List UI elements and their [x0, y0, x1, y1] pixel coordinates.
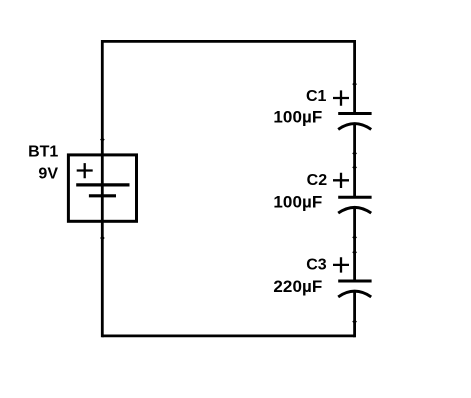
wire joint on left wire below BT1	[100, 236, 105, 241]
battery BT1 polarity plus sign	[77, 163, 93, 178]
svg-text:100µF: 100µF	[273, 193, 322, 212]
label C2 value 100µF	[273, 193, 322, 212]
wire top (node between BT1 + and C1 +)	[102, 40, 354, 43]
capacitor C2 polarity plus sign	[333, 173, 349, 188]
wire joint on right wire above C1	[352, 82, 357, 87]
wire left (BT1 branch)	[101, 40, 104, 337]
wire right segment: C2 to C3	[353, 208, 356, 281]
label C2 reference designator	[307, 172, 328, 189]
wire joint on left wire above BT1	[100, 137, 105, 142]
svg-text:C2: C2	[307, 172, 328, 189]
wire bottom (return node)	[102, 334, 354, 337]
svg-text:C3: C3	[306, 257, 327, 274]
capacitor C2 top plate	[338, 196, 371, 199]
capacitor C1 curved bottom plate	[338, 124, 371, 130]
capacitor C3 top plate	[338, 280, 371, 283]
wire joint between C3 and bottom corner	[352, 319, 357, 324]
wire joint between C1 and C2 (upper)	[352, 151, 357, 156]
battery BT1 positive plate (long)	[76, 183, 129, 186]
svg-text:BT1: BT1	[28, 143, 58, 160]
label C1 value 100µF	[273, 108, 322, 127]
wire joint between C2 and C3 (lower)	[352, 250, 357, 255]
wire joint between C2 and C3 (upper)	[352, 235, 357, 240]
svg-text:220µF: 220µF	[273, 277, 322, 296]
svg-text:100µF: 100µF	[273, 108, 322, 127]
svg-text:C1: C1	[306, 88, 327, 105]
svg-text:9V: 9V	[38, 165, 58, 182]
capacitor C1 polarity plus sign	[333, 90, 349, 105]
label C3 value 220µF	[273, 277, 322, 296]
capacitor C3 curved bottom plate	[338, 291, 371, 297]
wire joint between C1 and C2 (lower)	[352, 165, 357, 170]
capacitor C3 polarity plus sign	[333, 257, 349, 272]
label C3 reference designator	[306, 257, 327, 274]
wire right segment: top corner to C1	[353, 40, 356, 114]
wire right segment: C3 to bottom corner	[353, 291, 356, 337]
wire right segment: C1 to C2	[353, 124, 356, 197]
capacitor C2 curved bottom plate	[338, 207, 371, 213]
label BT1 reference designator	[28, 143, 58, 160]
battery BT1 negative plate (short)	[89, 194, 116, 197]
label BT1 value 9V	[38, 165, 58, 182]
capacitor C1 top plate	[338, 112, 371, 115]
battery BT1 box	[68, 155, 136, 221]
label C1 reference designator	[306, 88, 327, 105]
